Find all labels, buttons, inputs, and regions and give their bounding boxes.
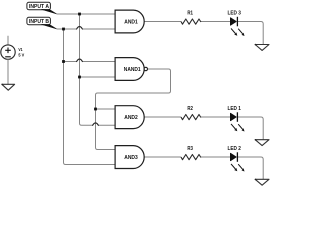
AND gate AND1 [115, 10, 144, 33]
wire NAND1 upper input from INPUT B bus (left of hop) [64, 61, 77, 63]
wire INPUT A horizontal to AND1 top input [57, 13, 116, 15]
resistor R1 [181, 11, 201, 25]
net flag INPUT A [27, 2, 57, 14]
wire INPUT A vertical bus [80, 14, 93, 125]
LED 1 (diode + arrows) [228, 106, 245, 132]
svg-text:AND1: AND1 [124, 20, 138, 26]
wire AND3 output to R3 [144, 156, 181, 158]
svg-text:V1: V1 [18, 47, 22, 53]
junction dot INPUT B at NAND1 upper input [62, 60, 65, 63]
NAND gate NAND1 [115, 58, 147, 81]
net flag INPUT B [27, 17, 57, 29]
resistor R3 [181, 146, 201, 160]
wire NAND1 lower input from INPUT A bus [80, 76, 116, 78]
wire R3 to LED 2 [201, 156, 230, 158]
wire R2 to LED 1 [201, 116, 230, 118]
wire V1 to ground [7, 59, 9, 84]
wire NAND1 output feedback routing [96, 69, 171, 150]
svg-text:R3: R3 [187, 146, 193, 152]
svg-text:LED 3: LED 3 [228, 10, 241, 16]
svg-text:R1: R1 [187, 11, 193, 17]
voltage source V1 [1, 36, 25, 60]
wire R1 to LED 3 [201, 21, 230, 23]
svg-text:NAND1: NAND1 [124, 67, 141, 73]
svg-text:INPUT B: INPUT B [29, 19, 49, 25]
svg-text:5 V: 5 V [18, 53, 25, 59]
wire AND2 lower input after hop [99, 124, 115, 126]
svg-text:LED 1: LED 1 [228, 106, 241, 112]
wire AND1 output to R1 [144, 21, 181, 23]
wire LED 2 to ground [237, 157, 263, 179]
wire INPUT B vertical bus down to AND3 lower input [64, 29, 116, 165]
wire hop on AND2 lower input over NAND output vertical [93, 123, 99, 125]
resistor R2 [181, 106, 201, 120]
ground (V1) [2, 84, 15, 90]
ground (LED 1) [255, 140, 269, 146]
junction dot NAND output at AND2 upper input [94, 108, 97, 111]
AND gate AND3 [115, 146, 144, 169]
wire INPUT B horizontal to AND1 lower input (right of hop) [83, 28, 115, 30]
wire hop on INPUT B wire over INPUT A vertical [77, 27, 83, 29]
wire INPUT B horizontal to AND1 lower input (left of hop) [57, 28, 77, 30]
wire NAND1 upper input (right of hop) [83, 61, 115, 63]
svg-text:LED 2: LED 2 [228, 146, 241, 152]
junction dot INPUT B at AND1 lower input [62, 28, 65, 31]
junction dot INPUT A at NAND1 lower input [78, 76, 81, 79]
LED 2 (diode + arrows) [228, 146, 245, 172]
ground (LED 3) [255, 45, 269, 51]
svg-text:AND3: AND3 [124, 155, 138, 161]
wire AND2 upper input branch [96, 108, 116, 110]
junction dot INPUT A at AND1 top input [78, 13, 81, 16]
wire LED 3 to ground [237, 22, 263, 45]
wire AND2 output to R2 [144, 116, 181, 118]
LED 3 (diode + arrows) [228, 10, 245, 36]
AND gate AND2 [115, 106, 144, 129]
ground (LED 2) [255, 179, 269, 185]
wire hop on NAND1 upper input over INPUT A vertical [77, 59, 83, 61]
svg-text:INPUT A: INPUT A [29, 4, 49, 10]
wire LED 1 to ground [237, 117, 263, 140]
svg-text:AND2: AND2 [124, 115, 138, 121]
svg-text:R2: R2 [187, 106, 193, 112]
